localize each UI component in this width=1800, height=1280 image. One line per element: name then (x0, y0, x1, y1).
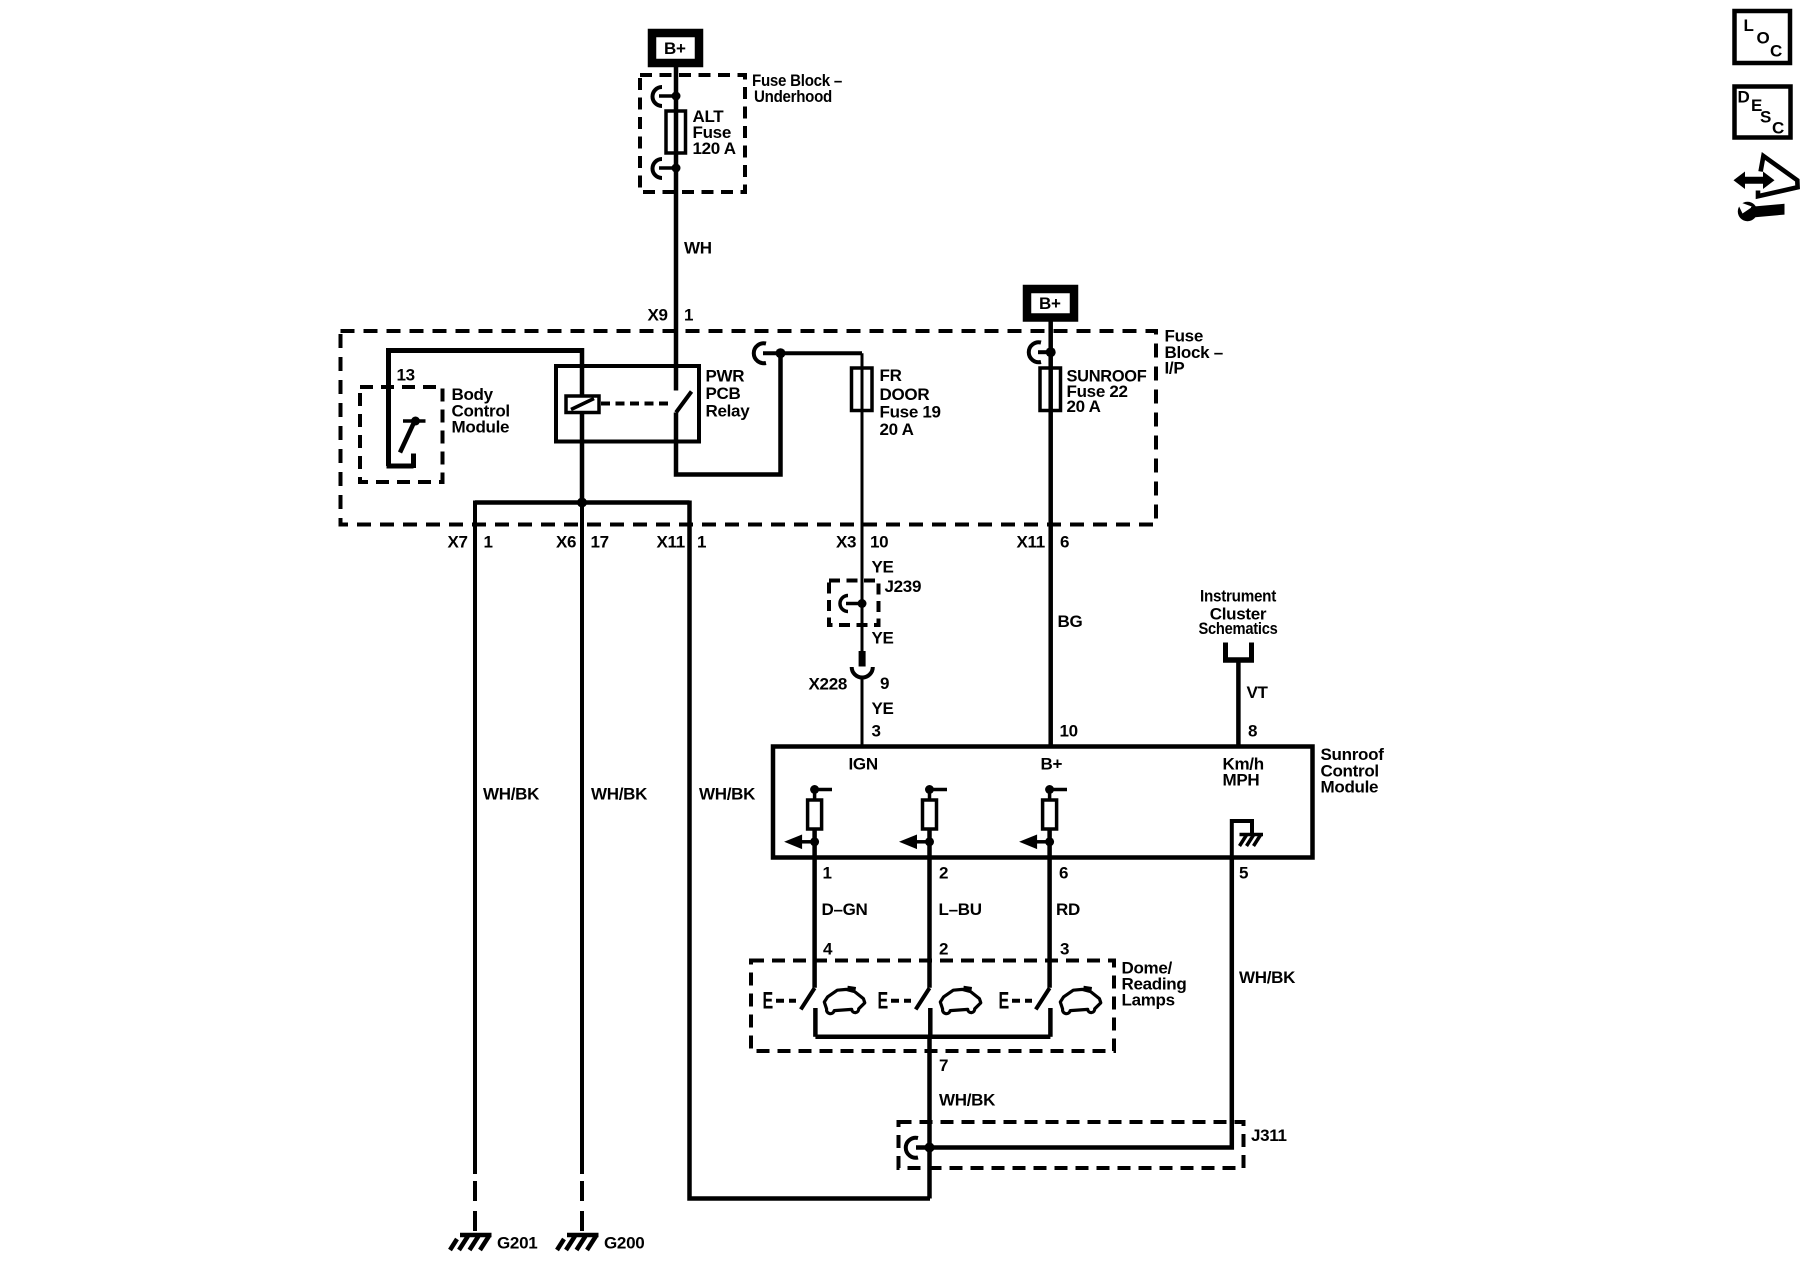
svg-text:Underhood: Underhood (754, 87, 832, 106)
terminal hook (sunroof fuse feed) (1029, 342, 1056, 362)
svg-text:BG: BG (1058, 612, 1083, 631)
svg-text:17: 17 (591, 533, 609, 552)
svg-text:X11: X11 (1017, 533, 1045, 552)
svg-text:G201: G201 (497, 1234, 537, 1253)
in-line connector X228 pin 9 (852, 651, 873, 678)
svg-text:B+: B+ (1041, 755, 1063, 774)
svg-text:Schematics: Schematics (1199, 619, 1278, 638)
svg-text:WH/BK: WH/BK (699, 785, 756, 804)
svg-text:WH/BK: WH/BK (483, 785, 540, 804)
svg-text:L–BU: L–BU (939, 900, 982, 919)
wire: module pin 6 to lamp (RD) (1047, 829, 1052, 988)
svg-text:1: 1 (697, 533, 706, 552)
svg-text:B+: B+ (664, 39, 686, 58)
svg-text:13: 13 (397, 366, 415, 385)
svg-text:RD: RD (1056, 900, 1080, 919)
svg-text:WH/BK: WH/BK (591, 785, 648, 804)
battery feed B+ box (I/P) (1027, 289, 1074, 318)
relay control dashed line (601, 402, 670, 406)
svg-text:E: E (878, 988, 889, 1015)
svg-text:1: 1 (484, 533, 493, 552)
svg-text:G200: G200 (604, 1234, 644, 1253)
svg-text:C: C (1772, 119, 1784, 138)
relay coil wire (580, 348, 585, 503)
lamp return bus (815, 1035, 1050, 1040)
DESC nav box (1735, 87, 1791, 138)
ground G200 (557, 1235, 599, 1250)
module internal driver 1 (IGN) (784, 785, 832, 849)
svg-text:J239: J239 (885, 577, 922, 596)
svg-text:D–GN: D–GN (822, 900, 868, 919)
svg-text:X228: X228 (809, 675, 848, 694)
wire: module pin 1 to lamp (D-GN) (812, 829, 817, 988)
dome/reading lamps dashed box (751, 961, 1114, 1052)
svg-text:6: 6 (1059, 864, 1068, 883)
svg-text:YE: YE (872, 558, 894, 577)
svg-text:E: E (999, 988, 1010, 1015)
svg-text:Module: Module (1321, 778, 1379, 797)
svg-text:3: 3 (1060, 940, 1069, 959)
svg-text:FR: FR (880, 366, 902, 385)
terminal hook top (fuse block underhood) (653, 87, 681, 106)
lamp icon 2 (car symbol) (940, 987, 981, 1013)
wire: X228 to module pin 3 (thin) (861, 678, 864, 747)
svg-text:YE: YE (872, 699, 894, 718)
svg-text:VT: VT (1247, 683, 1269, 702)
fuse block underhood dashed box (640, 75, 745, 192)
module internal ground (pin 5) (1232, 821, 1263, 858)
splice J311 hook (906, 1138, 918, 1158)
svg-text:1: 1 (684, 306, 693, 325)
module internal driver 2 (B+) (899, 785, 947, 849)
svg-text:8: 8 (1248, 722, 1257, 741)
BCM pin 13 switch contact (400, 417, 426, 453)
lamp icon 3 (car symbol) (1060, 987, 1101, 1013)
wire: X6 pin 17 to G200 (WH/BK) (580, 503, 584, 1175)
wire: FR DOOR fuse circuit (thin) upper part (861, 353, 864, 652)
ground bus wire inside fuse block I/P (475, 500, 690, 505)
svg-text:1: 1 (823, 864, 832, 883)
svg-text:10: 10 (1060, 722, 1078, 741)
wire: lamp return pin 7 down to J311 (927, 1037, 932, 1199)
svg-text:Fuse 19: Fuse 19 (880, 403, 941, 422)
relay switch blade (676, 392, 692, 413)
svg-text:L: L (1744, 16, 1754, 35)
svg-text:WH/BK: WH/BK (939, 1091, 996, 1110)
svg-text:20 A: 20 A (1067, 397, 1101, 416)
bus wire with terminal hook (relay output to FR DOOR fuse) (754, 343, 862, 363)
svg-text:MPH: MPH (1223, 771, 1260, 790)
LOC nav box (1735, 11, 1791, 63)
lamp switch 3 (999, 988, 1051, 1037)
svg-text:4: 4 (823, 940, 833, 959)
svg-text:3: 3 (872, 722, 881, 741)
svg-text:9: 9 (880, 674, 889, 693)
wire: module pin 2 to lamp (L-BU) (927, 829, 932, 988)
svg-text:D: D (1738, 88, 1750, 107)
svg-text:PWR: PWR (706, 367, 745, 386)
lamp switch 1 (763, 988, 816, 1037)
svg-text:20 A: 20 A (880, 420, 914, 439)
wire: module pin 5 to J311 (WH/BK) (916, 858, 1232, 1148)
svg-text:J311: J311 (1251, 1126, 1287, 1145)
svg-text:X6: X6 (556, 533, 576, 552)
wire: relay output up to fuse block bus (676, 355, 781, 475)
svg-text:Lamps: Lamps (1122, 991, 1175, 1010)
svg-text:YE: YE (872, 629, 894, 648)
svg-text:X11: X11 (657, 533, 685, 552)
body control module dashed box (360, 387, 443, 482)
navigate icon (double arrow, pointer outline, wrench) (1734, 156, 1798, 221)
svg-text:120 A: 120 A (693, 139, 736, 158)
svg-text:O: O (1757, 29, 1770, 48)
svg-text:7: 7 (939, 1056, 948, 1075)
splice J239 dashed box (829, 581, 879, 626)
svg-text:E: E (763, 988, 774, 1015)
sunroof control module box (773, 747, 1313, 858)
svg-text:X3: X3 (836, 533, 856, 552)
svg-text:I/P: I/P (1165, 359, 1185, 378)
fuse block I/P dashed box (341, 331, 1157, 525)
svg-text:X7: X7 (448, 533, 468, 552)
lamp icon 1 (car symbol) (824, 987, 865, 1013)
wire: X11 pin 1 ground path to J311 (WH/BK) (690, 501, 931, 1199)
splice J239 hook (840, 596, 867, 612)
off-page reference symbol (1223, 643, 1254, 661)
svg-text:DOOR: DOOR (880, 385, 930, 404)
svg-text:Instrument: Instrument (1200, 587, 1277, 606)
wire: X7 pin 1 to G201 (WH/BK) (473, 501, 477, 1175)
wire: BCM pin 13 to relay coil (thick) (387, 348, 583, 353)
PWR PCB relay box (556, 366, 699, 442)
svg-text:C: C (1770, 42, 1782, 61)
wire W1: B+ to ALT fuse to X9 pin 1 relay input (674, 66, 679, 391)
svg-text:2: 2 (939, 940, 948, 959)
svg-text:WH: WH (684, 239, 712, 258)
splice J311 dashed box (899, 1122, 1244, 1168)
svg-text:Relay: Relay (706, 402, 751, 421)
ground G201 (450, 1235, 492, 1250)
svg-text:2: 2 (939, 864, 948, 883)
svg-text:B+: B+ (1039, 294, 1061, 313)
svg-text:5: 5 (1239, 864, 1248, 883)
terminal hook bottom (fuse block underhood) (653, 159, 681, 178)
svg-text:IGN: IGN (849, 755, 878, 774)
svg-text:X9: X9 (648, 306, 668, 325)
module internal driver 3 (1019, 785, 1067, 849)
svg-text:10: 10 (870, 533, 888, 552)
svg-text:6: 6 (1060, 533, 1069, 552)
FR DOOR fuse 19 element (852, 368, 873, 411)
SUNROOF fuse 22 element (1040, 368, 1061, 411)
wire: B+ to SUNROOF fuse down to module pin 10 (thick) (1048, 317, 1053, 747)
relay coil symbol (566, 396, 599, 413)
svg-text:S: S (1760, 108, 1771, 127)
svg-text:WH/BK: WH/BK (1239, 968, 1296, 987)
svg-text:Module: Module (452, 418, 510, 437)
wire: instrument cluster to module pin 8 (VT) (1236, 660, 1241, 747)
battery feed B+ box (underhood) (652, 33, 699, 63)
ALT fuse 120A element (666, 111, 686, 153)
lamp switch 2 (878, 988, 931, 1037)
svg-text:PCB: PCB (706, 384, 741, 403)
